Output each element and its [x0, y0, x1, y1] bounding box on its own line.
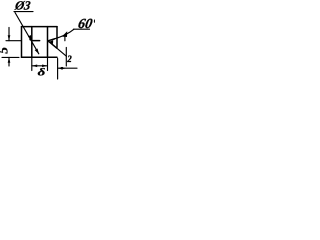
arrowhead 5 up [8, 57, 11, 62]
part outline left edge [21, 27, 23, 58]
svg-text:2: 2 [66, 54, 72, 64]
extension line below hole left wall [31, 57, 33, 70]
svg-text:60°: 60° [77, 16, 95, 32]
internal horizontal line hole bottom [32, 40, 40, 42]
leader line from Ø3 into hole [15, 13, 39, 54]
extension line for dim 5 lower [2, 56, 19, 58]
cone lower face extension to dim 2 [57, 48, 67, 56]
vertical through cone vertex [47, 27, 49, 58]
svg-text:δ: δ [38, 65, 46, 78]
cone upper face [48, 39, 55, 41]
arrowhead dim 2 left [58, 67, 63, 70]
tick below 60 arrowhead [64, 36, 66, 41]
arrowhead d left [32, 65, 37, 68]
svg-text:5: 5 [0, 47, 11, 54]
cone upper face extension to 60 deg shelf [53, 29, 74, 39]
arrowhead dim 2 right [61, 67, 66, 70]
arrowheads [8, 31, 67, 69]
hole left wall [31, 27, 33, 58]
leader knot at hole wall [29, 38, 32, 41]
part outline bottom edge [22, 56, 58, 58]
thick lines: part outline and features [22, 27, 58, 58]
dimension line 2 [58, 67, 77, 69]
leader shelf under Ø3 [14, 11, 33, 13]
text labels [0, 0, 100, 78]
arrowhead 5 down [8, 35, 11, 40]
leader arrowhead end [35, 49, 39, 55]
leader arrowhead mid at hole wall [28, 35, 32, 41]
dimension line 5 lower segment [8, 57, 10, 66]
extension line below cone vertex [47, 57, 49, 70]
arrowhead d right [42, 65, 47, 68]
dimension line d (bottom) [32, 65, 48, 67]
extension line for dim 2 left [57, 59, 59, 80]
dimension line 5 upper segment [8, 28, 10, 41]
cone lower face [48, 41, 57, 48]
part outline right face [56, 27, 58, 48]
svg-text:Ø3: Ø3 [13, 0, 31, 13]
60 deg leader shelf [74, 28, 90, 30]
part outline top edge [22, 26, 58, 28]
thin lines: dimensions, leaders, extensions [2, 12, 90, 79]
arrowhead at cone vertex [48, 40, 53, 44]
extension line for dim 5 upper [6, 40, 22, 42]
extension line for dim 2 right [65, 48, 67, 67]
arrowhead on cone upper face for 60 deg [62, 31, 67, 37]
